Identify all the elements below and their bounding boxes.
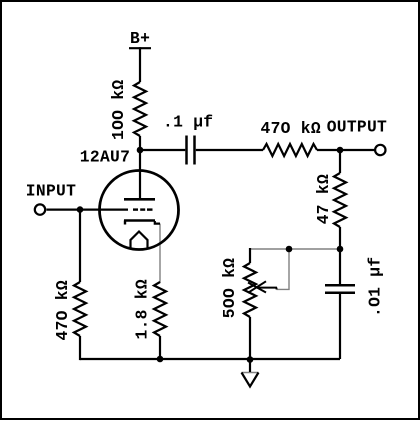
svg-text:INPUT: INPUT xyxy=(26,182,76,201)
svg-text:12AU7: 12AU7 xyxy=(80,148,130,167)
svg-text:47O kΩ: 47O kΩ xyxy=(53,280,72,340)
svg-text:B+: B+ xyxy=(130,29,150,48)
svg-text:5OO kΩ: 5OO kΩ xyxy=(220,258,239,318)
svg-text:.O1 μf: .O1 μf xyxy=(366,257,385,317)
svg-text:47 kΩ: 47 kΩ xyxy=(314,174,333,224)
svg-text:47O kΩ: 47O kΩ xyxy=(261,119,321,138)
svg-text:OUTPUT: OUTPUT xyxy=(327,117,387,136)
svg-text:1OO kΩ: 1OO kΩ xyxy=(109,80,128,140)
svg-text:1.8 kΩ: 1.8 kΩ xyxy=(133,279,152,339)
svg-text:.1 μf: .1 μf xyxy=(163,113,213,132)
